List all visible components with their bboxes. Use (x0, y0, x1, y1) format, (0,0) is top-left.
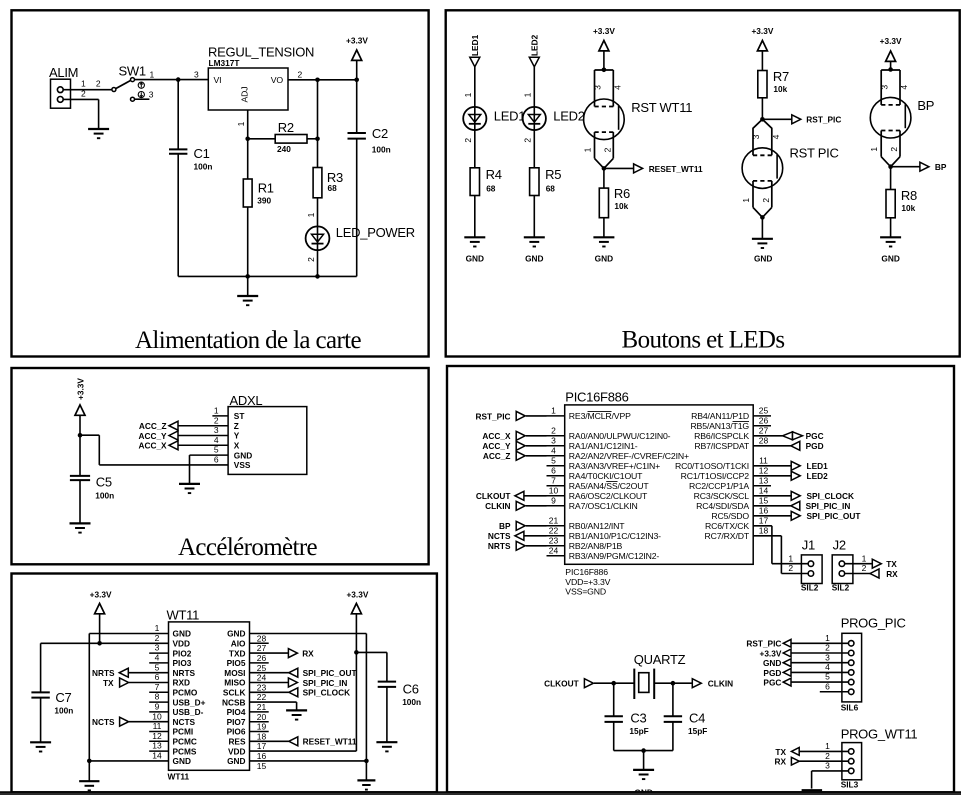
wire crystal to CLKIN (654, 682, 692, 684)
connector PROG_WT11 box (842, 743, 862, 780)
ground (power section) (237, 296, 258, 305)
net label RST_PIC (PROG_PIC) (746, 639, 781, 649)
svg-text:1: 1 (155, 623, 160, 633)
wire node to C5 (79, 435, 81, 476)
ground (R5) (524, 237, 545, 246)
power +3.3V arrow (ADXL) (75, 405, 85, 415)
svg-text:GND: GND (227, 756, 245, 766)
WT11 pin 12 number (152, 731, 162, 741)
net label SPI_CLOCK (303, 688, 350, 698)
svg-text:J1: J1 (802, 538, 815, 553)
resistor R3 (313, 168, 322, 198)
PIC pin 12 number (759, 465, 769, 475)
svg-text:1: 1 (306, 212, 316, 217)
svg-text:9: 9 (551, 495, 556, 505)
net label ACC_X (138, 441, 167, 451)
svg-text:SIL2: SIL2 (832, 583, 850, 593)
wire R7 to node (761, 98, 763, 120)
svg-text:9: 9 (155, 702, 160, 712)
svg-text:390: 390 (257, 196, 271, 206)
svg-text:PIO2: PIO2 (173, 648, 192, 658)
net label SPI_PIC_OUT (807, 511, 861, 521)
WT11 pin 16 number (257, 751, 267, 761)
svg-text:SPI_CLOCK: SPI_CLOCK (807, 491, 854, 501)
WT11 pin name PIO4 (right) (227, 707, 246, 717)
svg-text:25: 25 (759, 406, 769, 416)
wire pin22 SCLK to arrow (250, 691, 289, 693)
svg-text:PGC: PGC (763, 678, 781, 688)
svg-text:23: 23 (549, 535, 559, 545)
net label ACC_X (PIC) (482, 431, 511, 441)
PIC pin 7 stub (547, 485, 565, 487)
svg-text:RST_PIC: RST_PIC (806, 115, 841, 125)
svg-text:1: 1 (551, 406, 556, 416)
PIC pin 21 name (569, 521, 625, 531)
wire pin15 GND to rail (250, 760, 367, 762)
wire pin1 GND left rail (89, 634, 168, 782)
GND label (quartz) (634, 788, 652, 795)
resistor R3 label (327, 170, 343, 193)
svg-text:3: 3 (825, 652, 830, 662)
PIC pin 27 wire (753, 435, 782, 437)
connector PROG_PIC box (842, 633, 862, 702)
wire pin2 VDD to C7 (41, 642, 169, 644)
wire J2.1 to TX arrow (845, 563, 873, 565)
svg-text:PCMS: PCMS (173, 746, 197, 756)
WT11 pin name GND (right) (227, 629, 245, 639)
PIC pin 14 name (694, 491, 750, 501)
svg-text:J2: J2 (833, 538, 846, 553)
capacitor C2 (348, 126, 391, 155)
wire node to arrow (604, 167, 634, 169)
section frame: microcontroller area (447, 366, 954, 792)
svg-text:2: 2 (463, 138, 473, 143)
svg-text:11: 11 (759, 455, 768, 465)
power +3.3V (WT11 right) (346, 590, 368, 614)
wire +3.3V to node (79, 415, 81, 435)
wire pin14 GND to rail (89, 760, 168, 762)
ALIM pin 2 label (wire) (96, 79, 101, 89)
wire ALIM.2 to ground (63, 99, 98, 129)
svg-text:7: 7 (155, 682, 160, 692)
svg-text:1: 1 (862, 553, 867, 563)
svg-text:LM317T: LM317T (209, 58, 240, 68)
net label LED2 (rotated) (530, 34, 540, 56)
svg-text:PCMO: PCMO (173, 688, 198, 698)
wire R8 to ground (890, 218, 892, 238)
net label SPI_PIC_IN (806, 501, 851, 511)
svg-text:SCLK: SCLK (223, 688, 246, 698)
wire node to VSS pin 6 (80, 435, 228, 465)
J1 pin 1 number (788, 553, 793, 563)
LED_POWER pin 2 label (306, 257, 316, 262)
label RST WT11 (631, 100, 692, 115)
wire button to ground (761, 217, 763, 238)
svg-text:LED1: LED1 (807, 461, 829, 471)
wire bottom rail (GND net) (178, 275, 357, 277)
svg-text:RA4/T0CKI/C1OUT: RA4/T0CKI/C1OUT (569, 471, 643, 481)
PIC pin 22 name (569, 531, 661, 541)
WT11 pin 1 number (155, 623, 160, 633)
svg-text:ACC_Y: ACC_Y (138, 431, 167, 441)
svg-text:SPI_PIC_OUT: SPI_PIC_OUT (303, 668, 357, 678)
svg-text:PROG_PIC: PROG_PIC (841, 616, 906, 631)
WT11 pin 13 number (152, 741, 162, 751)
resistor R2 (275, 135, 307, 144)
svg-text:3: 3 (155, 643, 160, 653)
ground (ADXL GND pin) (179, 484, 200, 493)
PIC pin 28 number (759, 435, 769, 445)
connector J1 label (802, 538, 815, 553)
junction (C3 node) (611, 681, 616, 686)
junction (C6 node) (354, 650, 359, 655)
ground (ALIM) (88, 129, 109, 138)
input arrow NRTS (WT11) (119, 668, 128, 677)
input arrow GND (PROG_PIC) (783, 659, 791, 667)
pushbutton BP (869, 70, 911, 167)
PROG_PIC SIL6 label (841, 703, 859, 713)
PIC pin 12 name (681, 471, 750, 481)
WT11 pin 4 stub (149, 662, 168, 664)
WT11 pin 15 number (257, 761, 267, 771)
capacitor C5 (70, 475, 114, 501)
net label +3.3V (PROG_PIC) (759, 648, 781, 658)
WT11 pin name USB_D- (left 9) (173, 707, 204, 717)
ground (C7) (30, 742, 51, 751)
chip PIC16F886 box (565, 405, 754, 564)
ADXL pin 4 stub (178, 444, 228, 446)
wire PIC pin17 to J1.1 (753, 526, 808, 564)
WT11 pin name PCMS (left 13) (173, 746, 197, 756)
wire C3 node down (613, 683, 615, 716)
svg-text:VDD: VDD (173, 639, 191, 649)
PIC pin 7 name (569, 481, 650, 491)
PROG_PIC pin 1 circle (848, 641, 854, 647)
input arrow LED1 (470, 57, 480, 67)
resistor R7 (758, 71, 767, 98)
svg-text:BP: BP (499, 521, 511, 531)
svg-text:RA1/AN1/C12IN1-: RA1/AN1/C12IN1- (569, 441, 638, 451)
WT11 pin name VDD (left 2) (173, 639, 191, 649)
svg-text:2: 2 (96, 79, 101, 89)
LED LED_POWER (306, 226, 330, 250)
svg-text:15pF: 15pF (688, 726, 707, 736)
WT11 pin 6 number (155, 672, 160, 682)
svg-text:4: 4 (551, 445, 556, 455)
pushbutton RST PIC (741, 119, 783, 217)
section frame: Alimentation de la carte (12, 10, 429, 356)
net label ACC_Z (PIC) (483, 451, 511, 461)
svg-text:RB5/AN13/T1G: RB5/AN13/T1G (690, 421, 749, 431)
wire C4 node down (672, 683, 674, 716)
WT11 pin name GND (right) (227, 756, 245, 766)
net label RST_PIC (PIC) (475, 411, 510, 421)
ADXL pin 2 number (214, 415, 219, 425)
wire +3.3V arrow to VO rail (356, 60, 358, 79)
svg-text:TX: TX (103, 678, 114, 688)
svg-text:C1: C1 (194, 146, 210, 161)
WT11 pin 12 stub (149, 740, 168, 742)
PIC pin 9 number (551, 495, 556, 505)
svg-text:RB0/AN12/INT: RB0/AN12/INT (569, 521, 625, 531)
PIC pin 22 number (549, 525, 559, 535)
power +3.3V (RST PIC) (751, 26, 773, 51)
PIC pin 15 number (759, 495, 769, 505)
svg-text:NRTS: NRTS (488, 541, 511, 551)
svg-text:20: 20 (257, 712, 267, 722)
svg-text:R8: R8 (901, 188, 917, 203)
svg-text:NCSB: NCSB (222, 697, 246, 707)
svg-text:2: 2 (825, 751, 830, 761)
junction (C5/VSS node) (78, 433, 83, 438)
PIC pin 2 number (551, 425, 556, 435)
input arrow RST_PIC (PROG_PIC) (783, 639, 791, 647)
svg-text:14: 14 (759, 485, 769, 495)
PIC pin 18 number (759, 525, 769, 535)
input arrow PGD (791, 441, 800, 450)
connector PROG_WT11 label (841, 727, 918, 742)
label LED2 (553, 109, 584, 124)
junction (quartz gnd) (641, 748, 646, 753)
WT11 pin 22 number (257, 692, 267, 702)
svg-text:+3.3V: +3.3V (75, 378, 85, 400)
PROG_PIC pin 2 number (825, 643, 830, 653)
resistor R1 label (257, 181, 274, 206)
PIC pin 1 number (551, 406, 556, 416)
wire arrow to pin (526, 445, 547, 447)
chip WT11 label (167, 608, 200, 623)
input arrow RESET_WT11 (WT11) (289, 737, 298, 746)
PIC pin 11 wire (753, 465, 791, 467)
svg-text:R5: R5 (545, 167, 561, 182)
svg-text:PGD: PGD (763, 668, 781, 678)
output arrow SPI_CLOCK (791, 491, 800, 500)
svg-text:RC3/SCK/SCL: RC3/SCK/SCL (694, 491, 750, 501)
svg-text:R1: R1 (258, 181, 274, 196)
capacitor C1 (169, 146, 212, 171)
svg-text:LED2: LED2 (530, 34, 540, 56)
output arrow RX (WT11) (288, 649, 297, 658)
ground (PROG_WT11) (802, 789, 823, 791)
svg-text:+3.3V: +3.3V (90, 590, 112, 600)
svg-text:ACC_X: ACC_X (482, 431, 511, 441)
svg-text:TX: TX (775, 747, 786, 757)
svg-text:NRTS: NRTS (92, 668, 115, 678)
LED1 pin 2 label (463, 138, 473, 143)
svg-text:MOSI: MOSI (224, 668, 245, 678)
ADXL pin 6 number (214, 455, 219, 465)
resistor R8 label (901, 188, 917, 213)
svg-text:RA7/OSC1/CLKIN: RA7/OSC1/CLKIN (569, 501, 638, 511)
GND label (R5) (525, 253, 543, 263)
ALIM pin 2 label (81, 89, 86, 99)
svg-text:10: 10 (152, 711, 162, 721)
wire pin28 GND to right rail (250, 634, 367, 761)
PIC pin 10 stub (547, 495, 565, 497)
svg-text:NRTS: NRTS (173, 668, 196, 678)
svg-text:1: 1 (825, 741, 830, 751)
WT11 pin 23 number (257, 682, 267, 692)
svg-text:R6: R6 (614, 186, 630, 201)
net label SPI_PIC_IN (303, 678, 348, 688)
ground (WT11 left) (79, 781, 99, 790)
svg-text:68: 68 (546, 183, 556, 193)
wire LED to R4 (474, 130, 476, 168)
svg-text:PCMI: PCMI (173, 727, 194, 737)
PIC pin 6 number (551, 465, 556, 475)
wire ADJ node to R2 (248, 138, 276, 140)
PROG_PIC pin 5 wire (790, 681, 848, 683)
WT11 pin name TXD (right) (229, 648, 246, 658)
PROG_WT11 pin 2 circle (848, 758, 854, 764)
svg-text:PIC16F886: PIC16F886 (565, 567, 608, 577)
net label CLKIN (PIC) (485, 501, 510, 511)
wire C1 to bottom rail (177, 154, 179, 277)
WT11 pin name PIO7 (right) (227, 717, 246, 727)
svg-text:10k: 10k (901, 203, 915, 213)
wire node to R6 (603, 168, 605, 188)
resistor R1 (243, 179, 252, 207)
title: Alimentation de la carte (135, 327, 362, 354)
svg-text:27: 27 (257, 643, 267, 653)
label LED1 (494, 109, 525, 124)
wire R5 to ground (533, 196, 535, 238)
svg-text:27: 27 (759, 425, 769, 435)
net label SPI_PIC_OUT (303, 668, 357, 678)
net label RX (PROG_WT11) (774, 757, 786, 767)
net label ACC_Z (139, 421, 167, 431)
resistor R6 (599, 188, 608, 218)
svg-text:6: 6 (551, 465, 556, 475)
PROG_PIC pin 6 circle (848, 689, 854, 695)
svg-text:24: 24 (549, 545, 559, 555)
PIC pin 25 number (759, 406, 769, 416)
output arrow RST_PIC (792, 115, 801, 124)
PIC pin 18 name (704, 531, 749, 541)
net label LED1 (rotated) (470, 34, 480, 56)
svg-text:Boutons et LEDs: Boutons et LEDs (622, 327, 785, 354)
svg-text:2: 2 (306, 257, 316, 262)
wire arrow to pin (526, 525, 547, 527)
WT11 pin 11 stub (149, 731, 168, 733)
wire LED_POWER to bottom rail (317, 250, 319, 276)
ground (NCSB) (286, 710, 307, 719)
svg-text:3: 3 (551, 435, 556, 445)
WT11 pin name SCLK (right) (223, 688, 246, 698)
svg-text:24: 24 (257, 673, 267, 683)
net label GND (PROG_PIC) (763, 658, 781, 668)
net label CLKIN (quartz) (708, 679, 733, 689)
wire arrow to pin (526, 455, 547, 457)
PIC pin 13 number (759, 475, 769, 485)
wire arrow to pin (525, 535, 547, 537)
switch SW1 (112, 78, 135, 102)
svg-text:2: 2 (825, 643, 830, 653)
svg-text:LED2: LED2 (807, 471, 829, 481)
net label NRTS (WT11) (92, 668, 115, 678)
wire C2 to bottom rail (356, 139, 358, 277)
svg-text:RC5/SDO: RC5/SDO (711, 511, 749, 521)
output arrow CLKIN (quartz) (692, 679, 701, 688)
svg-text:PROG_WT11: PROG_WT11 (841, 727, 918, 742)
svg-text:2: 2 (214, 415, 219, 425)
PIC pin 26 name (690, 421, 749, 431)
svg-text:PCMC: PCMC (173, 737, 197, 747)
output arrow CLKOUT (quartz) (584, 679, 593, 688)
wire pin26 TXD to RX arrow (250, 652, 289, 654)
svg-text:100n: 100n (194, 161, 213, 171)
svg-text:+3.3V: +3.3V (346, 590, 368, 600)
wire to ground (quartz) (643, 751, 645, 770)
svg-text:2: 2 (602, 147, 612, 152)
net label NRTS (PIC) (488, 541, 511, 551)
PROG_PIC pin 4 number (825, 662, 830, 672)
PIC pin 26 number (759, 415, 769, 425)
svg-text:16: 16 (759, 505, 769, 515)
GND label (R4) (466, 253, 484, 263)
net label LED1 (807, 461, 829, 471)
svg-text:GND: GND (763, 658, 781, 668)
connector J2 (832, 555, 853, 584)
net label SPI_CLOCK (807, 491, 854, 501)
svg-text:4: 4 (899, 85, 909, 90)
PIC pin 17 name (705, 521, 749, 531)
PIC pin 5 number (551, 455, 556, 465)
svg-text:PIO3: PIO3 (173, 658, 192, 668)
input arrow NRTS (PIC) (516, 541, 525, 550)
wire pin17 RES to arrow (250, 740, 289, 742)
resistor R6 label (614, 186, 630, 211)
svg-text:ACC_Y: ACC_Y (482, 441, 511, 451)
svg-text:1: 1 (825, 633, 830, 643)
PIC pin 3 name (569, 441, 638, 451)
svg-text:USB_D+: USB_D+ (173, 697, 206, 707)
net label BP (935, 162, 947, 172)
WT11 pin 11 number (153, 721, 162, 731)
wire PIC pin18 to J1.2 (753, 536, 808, 574)
WT11 pin 20 number (257, 712, 267, 722)
net label RESET_WT11 (WT11) (303, 737, 357, 747)
svg-text:ST: ST (234, 411, 245, 421)
wire +3.3V to R7 (761, 51, 763, 71)
ground (RST PIC) (752, 239, 773, 248)
WT11 pin 3 stub (149, 652, 168, 654)
LED_POWER label (336, 225, 415, 240)
connector J1 (801, 555, 822, 584)
PIC pin 16 name (711, 511, 749, 521)
PIC pin 24 name (569, 551, 660, 561)
WT11 pin 3 number (155, 643, 160, 653)
svg-text:RX: RX (302, 649, 314, 659)
svg-text:11: 11 (153, 721, 162, 731)
PROG_PIC pin 6 number (825, 681, 830, 691)
wire node to arrow (891, 166, 920, 168)
svg-text:LED1: LED1 (494, 109, 525, 124)
LED LED1 (463, 107, 486, 130)
regulator U1 label (208, 45, 314, 69)
J1 pin 2 number (788, 563, 793, 573)
power +3.3V (BP) (880, 36, 902, 61)
WT11 pin 8 number (155, 692, 160, 702)
PIC pin 2 name (569, 431, 671, 441)
wire R6 to ground (603, 218, 605, 238)
svg-text:5: 5 (155, 662, 160, 672)
svg-text:RC1/T1OSI/CCP2: RC1/T1OSI/CCP2 (681, 471, 750, 481)
input arrow RST_PIC (PIC) (516, 411, 525, 420)
PROG_PIC pin 3 circle (848, 660, 854, 666)
input arrow RX (J2) (870, 569, 879, 578)
title: Boutons et LEDs (622, 327, 785, 354)
